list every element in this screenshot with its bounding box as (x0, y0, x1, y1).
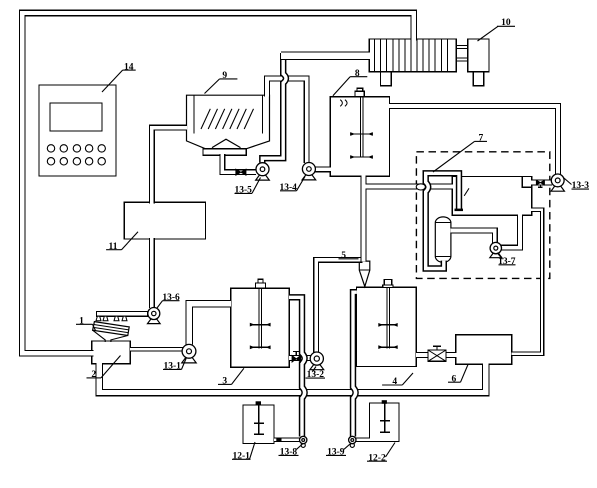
pipe: tank 12-1 to pump 13-8 (274, 438, 299, 443)
tank 12-2 (370, 403, 400, 442)
svg-text:4: 4 (392, 377, 397, 387)
control panel 14 (39, 85, 116, 176)
pipe: box 11 to pump 13-6 (149, 238, 155, 308)
funnel under screen 1 (93, 330, 128, 342)
svg-text:14: 14 (124, 62, 134, 72)
svg-text:13-3: 13-3 (572, 181, 590, 191)
pipe union ellipse on tank8-tank7 pipe (416, 184, 425, 190)
valve at tank 9 outlet (236, 169, 246, 175)
valve at pump 13-3 (536, 180, 544, 185)
heat exchanger 10 (369, 39, 456, 72)
tank 12-1 (243, 405, 274, 444)
tank 3 (231, 288, 290, 367)
pipe: tank 7 small box to valve and pump 13-3 (531, 180, 552, 186)
bottom pipe: box 6 down, left, up to box 2 (99, 363, 486, 393)
svg-text:12-2: 12-2 (368, 453, 386, 463)
pump 13-5 (256, 174, 270, 180)
big loop pipe: exchanger top - around frame - box 2 (22, 13, 413, 353)
svg-text:8: 8 (355, 69, 360, 79)
conveyor feeder (96, 312, 147, 317)
box 2 (92, 341, 131, 364)
small valve at tank 12-1 outlet (276, 438, 281, 441)
tank 7 (452, 177, 532, 216)
tank 9 (187, 95, 270, 149)
dashed enclosure box 7 (416, 152, 549, 279)
pipe: tank 9 top to pump 13-4 (267, 78, 307, 163)
pump 13-3 (551, 185, 564, 191)
pipe: tank 7 right to box 6 (511, 210, 542, 354)
svg-text:13-8: 13-8 (280, 448, 298, 458)
svg-text:7: 7 (479, 134, 484, 144)
pipe: tank 3 to pump 13-8 riser (jog over bottom pipe) (289, 297, 305, 436)
pipe: pump 13-1 riser to tank 3 (189, 304, 231, 345)
pipe: tank 4 to valve and box 6 (416, 352, 457, 358)
pipe: tank 8 outlet tee - down to cyclone 5 and right to tank 7 (364, 175, 453, 261)
tank 4 (357, 287, 417, 366)
pump 13-7 (490, 252, 502, 258)
pump 13-4 (302, 174, 316, 180)
svg-text:9: 9 (222, 71, 227, 81)
svg-text:11: 11 (109, 242, 118, 252)
svg-text:13-2: 13-2 (307, 370, 325, 380)
pipe: riser to heat exchanger 10 left inlet (281, 52, 370, 60)
pipe: tank 9 outlet to valve and pump 13-5 (222, 154, 256, 172)
pipe: tank 3 outlet to valve and pump 13-2 (289, 355, 311, 361)
pipe: pump 13-2 riser to cyclone 5 (316, 260, 362, 354)
pipe: box 2 to pump 13-1 (130, 347, 184, 352)
vessel in box 7 (435, 217, 451, 262)
pipe: pump 13-9 to tank 12-2 (356, 438, 371, 443)
svg-text:6: 6 (452, 374, 457, 384)
screen 1 (93, 322, 130, 336)
pipe: tank 9 left to box 11 (152, 128, 187, 204)
svg-text:13-9: 13-9 (327, 448, 345, 458)
pump 13-1 (182, 356, 196, 363)
pipe: pump 13-7 to tank 7 bottom (501, 215, 520, 248)
pipe: tank 4 to pump 13-9 riser (jog over bottom pipe) (353, 292, 357, 436)
valve at tank 3 outlet (295, 352, 297, 356)
pipe: pump 13-4 to tank 8 (315, 166, 331, 172)
agitator tank 8 (359, 97, 361, 158)
svg-text:1: 1 (79, 316, 84, 326)
svg-text:13-4: 13-4 (279, 183, 297, 193)
box 6 (456, 335, 512, 365)
pump 13-2 (310, 363, 324, 369)
pipe: pump 13-5 riser (jog over tank9 top pipe) (262, 53, 286, 163)
svg-text:3: 3 (222, 377, 227, 387)
agitator tank 3 (258, 288, 260, 348)
dip tube distributor cap in tank 7 (455, 209, 464, 212)
pump 13-6 (148, 318, 161, 324)
pump 13-9 (350, 443, 354, 447)
svg-text:5: 5 (341, 251, 346, 261)
svg-text:12-1: 12-1 (232, 451, 250, 461)
pipe: vessel to pump 13-7 (450, 231, 495, 244)
pipe: vessel bottom up over (jog) into tank 7 dip tube (426, 173, 459, 268)
svg-text:13-1: 13-1 (163, 362, 181, 372)
agitator tank 4 (386, 287, 388, 348)
pump 13-8 (301, 443, 305, 447)
svg-text:13-6: 13-6 (162, 293, 180, 303)
valve between tank 4 and box 6 (428, 350, 446, 361)
pipe: pump 13-3 riser to tank 8 right (389, 106, 558, 175)
agitator tank 12-1 (258, 405, 260, 434)
box 11 (124, 202, 205, 239)
cyclone 5 (359, 261, 370, 286)
svg-text:2: 2 (91, 370, 96, 380)
agitator tank 12-2 (384, 403, 386, 432)
tank 8 (330, 97, 389, 176)
